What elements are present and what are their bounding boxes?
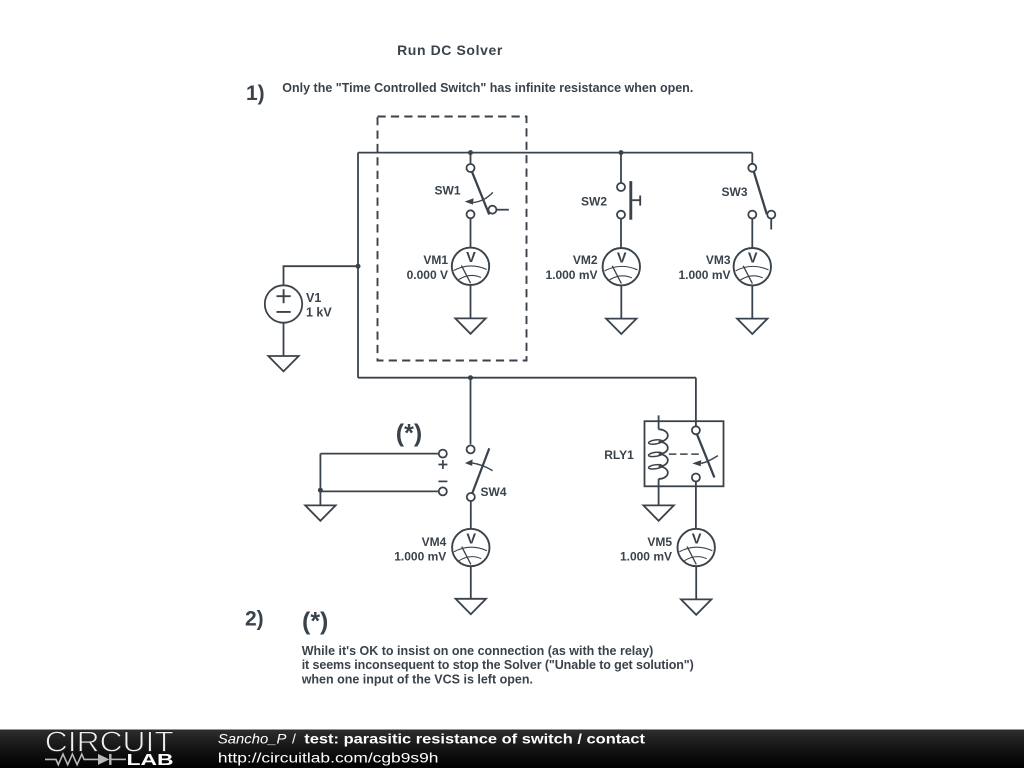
label -: [438, 480, 447, 482]
svg-text:Sancho_P: Sancho_P: [218, 730, 287, 746]
svg-text:V: V: [466, 531, 476, 547]
wire RLY1 switch to VM5: [695, 481, 697, 529]
wire bottom bus to RLY1 switch: [695, 378, 697, 427]
svg-text:(*): (*): [302, 608, 328, 636]
svg-text:LAB: LAB: [127, 752, 174, 768]
voltmeter VM4: [452, 529, 489, 566]
svg-text:(*): (*): [396, 420, 422, 448]
wire VM5 to ground: [695, 566, 697, 599]
ground below RLY1 coil: [643, 505, 673, 520]
wire V1 bottom lead: [283, 323, 285, 356]
svg-text:Only the "Time Controlled Swit: Only the "Time Controlled Switch" has in…: [282, 81, 693, 95]
svg-text:V: V: [692, 531, 702, 547]
svg-text:0.000 V: 0.000 V: [407, 268, 448, 282]
svg-text:Run DC Solver: Run DC Solver: [397, 42, 503, 58]
wire control - lead: [320, 490, 439, 492]
svg-text:2): 2): [245, 607, 264, 630]
wire SW1 top stub: [470, 153, 472, 165]
svg-text:test: parasitic resistance of: test: parasitic resistance of switch / c…: [304, 730, 645, 746]
svg-text:1): 1): [246, 82, 265, 105]
switch SW3 (SPST, open): [748, 164, 775, 230]
svg-text:While it's OK to insist on one: While it's OK to insist on one connectio…: [302, 644, 654, 658]
wire SW1 to VM1: [470, 218, 472, 247]
wire control left vertical: [319, 454, 321, 491]
svg-text:it seems inconsequent to stop: it seems inconsequent to stop the Solver…: [302, 658, 694, 672]
ground below SW4 control: [305, 505, 335, 520]
relay RLY1: [645, 415, 724, 486]
wire bottom bus to SW4: [470, 378, 472, 445]
svg-text:VM5: VM5: [647, 535, 672, 549]
footer bar: [0, 730, 1024, 768]
wire SW3 to VM3: [751, 218, 753, 248]
wire SW3 top stub: [751, 153, 753, 165]
dashed highlight box: [378, 117, 527, 361]
svg-text:RLY1: RLY1: [604, 448, 634, 462]
svg-text:SW2: SW2: [581, 194, 607, 208]
wire VM4 to ground: [470, 566, 472, 599]
wire top bus: [358, 152, 752, 154]
svg-text:1.000 mV: 1.000 mV: [620, 549, 672, 563]
wire SW4 to VM4: [470, 500, 472, 529]
ground below V1: [268, 356, 298, 371]
control terminal + of SW4: [439, 450, 447, 458]
ground below VM3: [737, 319, 767, 334]
control terminal - of SW4: [439, 487, 447, 495]
voltmeter VM2: [603, 248, 640, 285]
wire V1 top lead: [284, 266, 359, 285]
node junction bottom bus / SW4: [468, 375, 473, 380]
switch SW4 (voltage controlled, open): [465, 445, 493, 501]
wire VM1 to ground: [470, 285, 472, 318]
svg-text:V: V: [617, 250, 627, 266]
node junction left vertical / V1: [356, 264, 361, 269]
wire control ground stub: [319, 490, 321, 505]
logo resistor symbol: [45, 754, 98, 765]
svg-text:1.000 mV: 1.000 mV: [394, 549, 446, 563]
voltmeter VM1: [452, 248, 489, 285]
wire SW2 top stub: [620, 153, 622, 183]
ground below VM4: [456, 599, 486, 614]
svg-text:V1: V1: [306, 291, 321, 305]
label +: [438, 460, 447, 469]
svg-text:SW1: SW1: [434, 184, 460, 198]
svg-text:VM1: VM1: [423, 253, 448, 267]
svg-text:when one input of the VCS is l: when one input of the VCS is left open.: [301, 673, 533, 687]
svg-text:V: V: [748, 250, 758, 266]
svg-text:http://circuitlab.com/cgb9s9h: http://circuitlab.com/cgb9s9h: [218, 750, 439, 766]
ground below VM2: [606, 319, 636, 334]
svg-text:SW4: SW4: [481, 485, 507, 499]
wire VM2 to ground: [620, 285, 622, 318]
svg-text:VM2: VM2: [573, 253, 598, 267]
wire bottom bus: [358, 377, 696, 379]
logo diode symbol: [98, 754, 109, 765]
svg-text:1.000 mV: 1.000 mV: [545, 268, 597, 282]
ground below VM5: [681, 599, 711, 614]
svg-text:V: V: [466, 250, 476, 266]
wire RLY1 coil to ground: [658, 479, 660, 506]
svg-text:SW3: SW3: [721, 185, 747, 199]
node junction top bus / SW2: [619, 150, 624, 155]
node junction top bus / SW1: [468, 150, 473, 155]
node junction control ground: [318, 488, 323, 493]
svg-text:VM3: VM3: [706, 253, 731, 267]
voltage source V1: [265, 285, 302, 322]
switch SW1 (time controlled, open): [465, 164, 509, 218]
wire VM3 to ground: [751, 285, 753, 318]
voltmeter VM3: [734, 248, 771, 285]
svg-text:VM4: VM4: [422, 535, 447, 549]
wire left vertical: [357, 153, 359, 378]
switch SW2 (push button, normally open): [617, 181, 640, 220]
svg-text:/: /: [292, 730, 296, 746]
svg-text:1 kV: 1 kV: [306, 305, 332, 319]
svg-text:1.000 mV: 1.000 mV: [678, 268, 730, 282]
wire SW2 to VM2: [620, 218, 622, 248]
ground below VM1: [455, 318, 485, 333]
voltmeter VM5: [678, 529, 715, 566]
wire control + lead: [320, 453, 439, 455]
